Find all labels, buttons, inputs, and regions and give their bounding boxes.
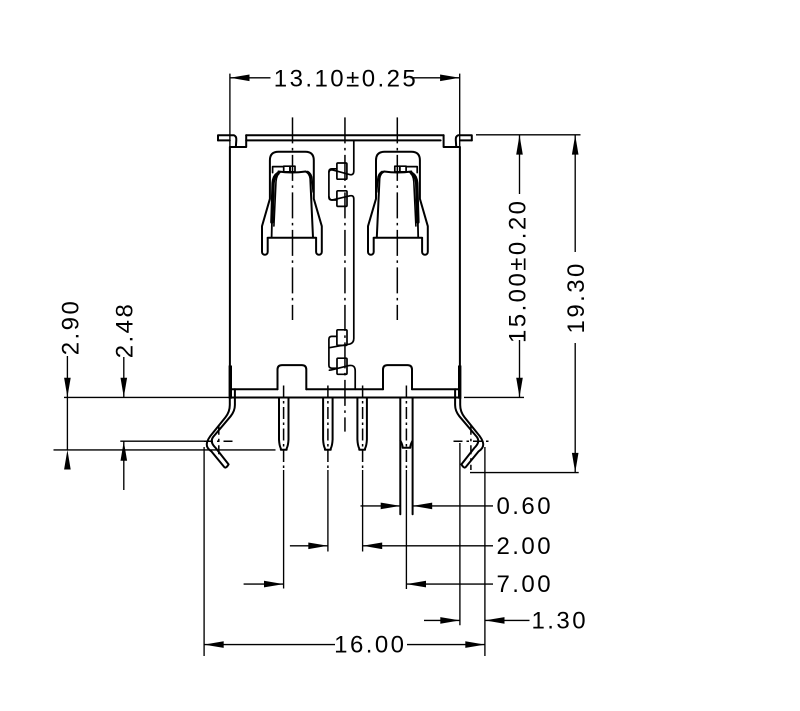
top-right notch (444, 135, 460, 147)
2.48 reference line (120, 440, 205, 442)
dim 15.00 line (519, 135, 521, 194)
svg-text:0.60: 0.60 (497, 493, 554, 520)
right wing fold edge (thick bar) (458, 366, 461, 399)
top latch window box 2 (337, 191, 347, 207)
dim 2.90 line lower (66, 398, 68, 450)
shell bottom inner line segments (231, 388, 278, 390)
pin 1 centerline (283, 386, 285, 469)
dim 16.00 line (204, 644, 335, 646)
bottom latch C-bracket (329, 336, 337, 368)
pin 3 (357, 399, 367, 450)
top latch hook from shell top (329, 141, 354, 175)
svg-text:7.00: 7.00 (497, 571, 554, 598)
1.30 arrows (440, 617, 460, 624)
pin 2 centerline (327, 386, 329, 469)
hood outline with legs (262, 152, 322, 255)
latch middle S-link (329, 196, 354, 348)
dim 2.90 line upper (66, 356, 68, 397)
left wing outer ext line (203, 447, 205, 656)
pin 1 (279, 399, 289, 450)
dim 2.48 line upper (123, 357, 125, 397)
dim 19.30 line (574, 135, 576, 252)
dim 2.00 line (290, 545, 328, 547)
svg-text:2.00: 2.00 (497, 533, 554, 560)
top latch C-bracket (329, 169, 337, 200)
svg-text:15.00±0.20: 15.00±0.20 (504, 199, 531, 343)
main vertical centerline (344, 117, 346, 431)
svg-text:2.90: 2.90 (57, 299, 84, 356)
2.00 arrows (308, 543, 328, 550)
left wing hole vertical centerline (218, 426, 220, 456)
7.00 arrows (264, 581, 284, 588)
2.90 arrows (64, 378, 71, 398)
svg-text:16.00: 16.00 (334, 632, 406, 659)
shell top wall inner line (246, 139, 440, 141)
left contact centerline (292, 117, 294, 320)
19.30 arrows (572, 135, 579, 155)
dim 1.30 left ext line (459, 443, 461, 625)
pin 4 centerline (405, 386, 407, 469)
16.00 arrows (204, 641, 224, 648)
pin3 center ext line (362, 470, 364, 552)
shell bottom outer line (230, 396, 460, 398)
stand-off peg left (278, 365, 307, 389)
pin 4 (long, through-board) (399, 399, 401, 515)
13.10 arrows (230, 75, 250, 82)
pin1 center ext line (283, 470, 285, 589)
dim 13.10 ext lines (229, 74, 231, 147)
dim 0.60 line (361, 505, 401, 507)
left wing strip (207, 389, 235, 467)
top latch window box 1 (337, 163, 347, 179)
dim 1.30 line (424, 619, 460, 621)
dim 13.10 line (230, 77, 271, 79)
tab box 1 (284, 166, 290, 172)
svg-text:1.30: 1.30 (532, 607, 589, 634)
svg-text:19.30: 19.30 (563, 261, 590, 333)
beam top (278, 172, 305, 173)
right contact spring (mirror) (368, 152, 428, 255)
bottom latch window box 2 (337, 358, 347, 374)
shell left wall (229, 147, 231, 398)
bottom latch window box 1 (337, 330, 347, 346)
pin 2 (323, 399, 333, 450)
svg-text:13.10±0.25: 13.10±0.25 (274, 66, 418, 93)
top-right folded tab (456, 135, 472, 146)
tab box 2 (290, 166, 295, 172)
top-left folded tab (218, 135, 236, 146)
right wing hole horizontal centerline (454, 440, 489, 442)
bottom latch hook to shell bottom (329, 365, 355, 389)
right wing hole vertical centerline (470, 426, 472, 470)
contact top tab line (273, 167, 284, 173)
right contact centerline (396, 117, 398, 320)
stand-off peg right (383, 365, 412, 389)
body bottom left ext line (64, 396, 230, 398)
dim 15.00 top ext line (476, 134, 581, 136)
dim 19.30 bottom ext line (470, 472, 579, 474)
left wing hole horizontal centerline (204, 440, 237, 442)
pin2 center ext line (327, 470, 329, 552)
dim 2.48 line lower (123, 441, 125, 490)
svg-text:2.48: 2.48 (112, 302, 139, 359)
seating plane line (54, 449, 276, 451)
right wing strip (455, 389, 483, 467)
right wing outer ext line (484, 447, 486, 656)
dim 15.00 bottom ext line (464, 396, 524, 398)
0.60 arrows (381, 503, 401, 510)
2.48 arrows (121, 378, 128, 398)
pin4 center ext line (405, 470, 407, 589)
shell right wall (459, 147, 461, 398)
bridge line (268, 237, 316, 239)
pin 3 centerline (362, 386, 364, 469)
dim 7.00 line (244, 583, 284, 585)
beam left edge (thick) (272, 174, 278, 222)
top-left notch (230, 135, 246, 147)
beam right edge (306, 172, 313, 238)
15.00 arrows (516, 135, 523, 155)
shell top wall outer line (246, 134, 443, 136)
left wing fold edge (thick bar) (229, 366, 232, 399)
left contact spring (262, 152, 322, 255)
